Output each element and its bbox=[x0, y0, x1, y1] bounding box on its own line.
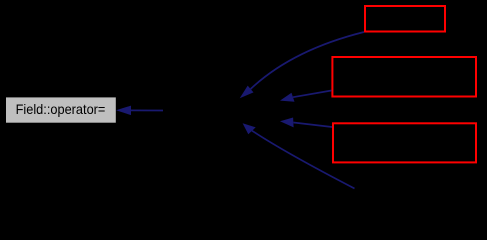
node: red box 1 (top right, truncated node) bbox=[365, 6, 445, 32]
arrow: middle node to Field::operator= bbox=[116, 106, 163, 116]
node: Field::operator= (current node, grey fill) bbox=[6, 97, 116, 122]
svg-text:Field::operator=: Field::operator= bbox=[16, 102, 106, 117]
arrow: red box 2 to middle node bbox=[280, 91, 332, 102]
node: red box 3 (lower right, truncated node) bbox=[333, 123, 476, 162]
arrow: bottom node to middle node bbox=[243, 123, 355, 188]
arrow: red box 1 to middle node bbox=[240, 32, 364, 98]
node: red box 2 (middle right, truncated node) bbox=[332, 57, 476, 97]
arrow: red box 3 to middle node bbox=[280, 118, 332, 128]
